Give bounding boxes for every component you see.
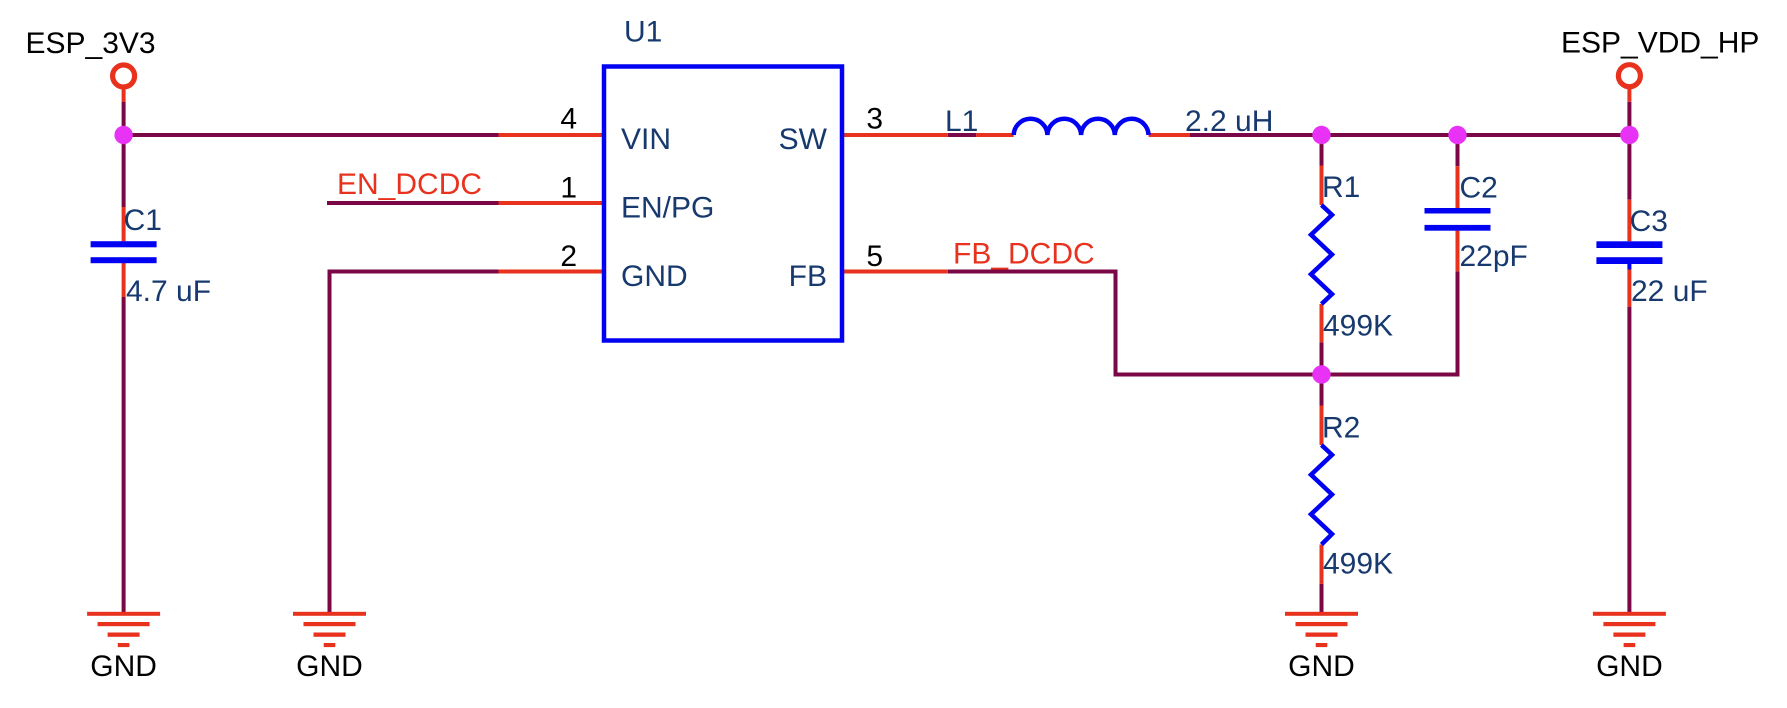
wire EN_DCDC: [327, 201, 499, 205]
wire ESP_3V3 horizontal to VIN: [122, 133, 499, 137]
svg-text:EN/PG: EN/PG: [621, 191, 714, 224]
svg-text:4.7 uF: 4.7 uF: [126, 275, 211, 308]
wire node to C2: [1456, 135, 1460, 166]
pin 2 stub GND: [499, 270, 604, 274]
svg-text:22 uF: 22 uF: [1631, 275, 1708, 308]
junction node C2 top: [1448, 126, 1466, 144]
svg-text:SW: SW: [779, 123, 828, 156]
svg-text:R1: R1: [1322, 171, 1360, 204]
junction node R1 top: [1312, 126, 1330, 144]
wire ESP_VDD_HP vertical upper: [1627, 102, 1631, 200]
terminal ESP_3V3: [113, 65, 135, 87]
pin stub C2 top: [1456, 166, 1460, 208]
svg-text:GND: GND: [1596, 650, 1663, 683]
pin 3 stub SW: [843, 133, 948, 137]
pin stub L1 left: [976, 133, 1013, 137]
ground symbol 3 (R2): [1285, 612, 1358, 647]
pin stub R1 bottom: [1320, 304, 1324, 342]
wire FB vertical: [1114, 270, 1118, 375]
svg-text:5: 5: [866, 240, 883, 273]
capacitor C3 pin nub: [1627, 264, 1631, 270]
pin stub R2 top: [1320, 406, 1324, 446]
terminal stem ESP_VDD_HP: [1627, 88, 1631, 102]
wire SW to L1: [948, 133, 977, 137]
junction node FB divider: [1312, 365, 1330, 383]
svg-text:GND: GND: [621, 260, 688, 293]
svg-text:GND: GND: [296, 650, 363, 683]
svg-text:C3: C3: [1630, 205, 1668, 238]
wire ESP_3V3 vertical upper: [122, 102, 126, 207]
pin stub C3 bottom: [1627, 270, 1631, 307]
svg-text:L1: L1: [945, 105, 978, 138]
wire FB feedback horizontal lower: [1114, 373, 1458, 377]
wire R2 bottom to GND: [1320, 584, 1324, 612]
capacitor C1 plates: [91, 241, 157, 247]
ground symbol 1 (C1): [87, 612, 160, 647]
junction node ESP_VDD_HP: [1620, 126, 1638, 144]
svg-text:R2: R2: [1322, 412, 1360, 445]
wire GND pin horizontal: [328, 270, 499, 274]
pin 4 stub VIN: [499, 133, 604, 137]
pin stub R2 bottom: [1320, 545, 1324, 584]
inductor L1 coil: [1014, 119, 1149, 135]
pin stub C3 top: [1627, 200, 1631, 242]
wire L1 to ESP_VDD_HP node: [1190, 133, 1629, 137]
terminal stem ESP_3V3: [122, 88, 126, 102]
wire node to R1: [1320, 135, 1324, 166]
wire GND pin vertical: [328, 270, 332, 613]
wire FB horizontal: [948, 270, 1118, 274]
terminal ESP_VDD_HP: [1618, 65, 1640, 87]
svg-text:FB_DCDC: FB_DCDC: [953, 238, 1095, 271]
pin 1 stub EN/PG: [499, 201, 604, 205]
svg-text:C1: C1: [124, 204, 162, 237]
pin stub R1 top: [1320, 166, 1324, 206]
pin stub L1 right: [1149, 133, 1190, 137]
svg-text:2.2 uH: 2.2 uH: [1185, 105, 1273, 138]
pin stub C1 top: [122, 207, 126, 241]
svg-text:FB: FB: [789, 260, 827, 293]
capacitor C3 plates: [1596, 241, 1662, 248]
ground symbol 2 (U1 GND): [293, 612, 366, 647]
resistor R2 zigzag: [1311, 445, 1332, 545]
svg-text:499K: 499K: [1323, 310, 1393, 343]
pin stub C1 bottom: [122, 263, 126, 297]
svg-text:499K: 499K: [1323, 548, 1393, 581]
svg-text:4: 4: [560, 103, 577, 136]
svg-text:22pF: 22pF: [1460, 240, 1528, 273]
capacitor C2 plates: [1425, 208, 1491, 214]
svg-text:1: 1: [560, 172, 577, 205]
svg-text:EN_DCDC: EN_DCDC: [337, 168, 482, 201]
svg-text:U1: U1: [624, 16, 662, 49]
wire C1 bottom to GND: [122, 297, 126, 612]
pin stub C2 bottom: [1456, 231, 1460, 272]
svg-text:VIN: VIN: [621, 123, 671, 156]
op-amp U1 body: [604, 67, 842, 341]
svg-text:2: 2: [560, 240, 577, 273]
ground symbol 4 (C3): [1593, 612, 1666, 647]
junction node ESP_3V3: [114, 126, 132, 144]
wire R1 bottom to R2 top: [1320, 342, 1324, 405]
svg-text:GND: GND: [1288, 650, 1355, 683]
svg-text:C2: C2: [1460, 172, 1498, 205]
wire C3 bottom to GND: [1627, 307, 1631, 612]
svg-text:ESP_VDD_HP: ESP_VDD_HP: [1561, 27, 1759, 60]
wire C2 bottom: [1456, 271, 1460, 376]
resistor R1 zigzag: [1311, 205, 1332, 304]
svg-text:GND: GND: [90, 650, 157, 683]
svg-text:3: 3: [866, 103, 883, 136]
svg-text:ESP_3V3: ESP_3V3: [26, 27, 156, 60]
pin 5 stub FB: [843, 270, 948, 274]
